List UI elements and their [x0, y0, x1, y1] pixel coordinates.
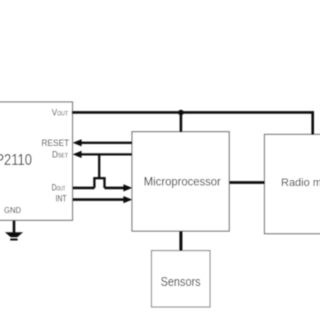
wire microprocessor to sensors [179, 231, 182, 251]
wire hop left leg [93, 178, 95, 188]
wire hop over Dout: top bar [93, 177, 105, 179]
wire Vout horizontal [72, 111, 314, 114]
wire GND stem [13, 220, 16, 233]
wire DOUT left segment [73, 187, 95, 190]
arrowhead DOUT into microprocessor [123, 184, 132, 191]
wire Vout drop to radio module [311, 111, 314, 135]
wire microprocessor to radio module [229, 181, 265, 184]
svg-text:INT: INT [56, 194, 67, 205]
arrowhead INT into microprocessor [123, 196, 132, 203]
wire DOUT right segment [105, 187, 127, 190]
wire hop right leg [103, 178, 105, 188]
wire RESET [76, 142, 132, 144]
arrowhead RESET into P2110 [73, 139, 82, 146]
svg-text:GND: GND [4, 205, 21, 215]
svg-text:RESET: RESET [42, 138, 70, 149]
wire INT [73, 198, 127, 201]
wire DSET vertical branch [98, 154, 100, 178]
wire Vout drop to microprocessor [180, 112, 183, 132]
microprocessor block [132, 132, 229, 231]
svg-text:P2110: P2110 [0, 152, 32, 169]
arrowhead DSET into P2110 [73, 151, 82, 158]
ground symbol [5, 232, 23, 237]
svg-text:Sensors: Sensors [161, 274, 201, 289]
radio module block [265, 134, 320, 233]
sensors block [152, 251, 211, 307]
P2110 powerharvester block U1 [0, 102, 73, 220]
svg-text:Microprocessor: Microprocessor [144, 174, 221, 188]
junction dot on Vout net [178, 110, 184, 116]
wire DSET [76, 153, 132, 155]
svg-text:Radio module: Radio module [281, 177, 320, 189]
